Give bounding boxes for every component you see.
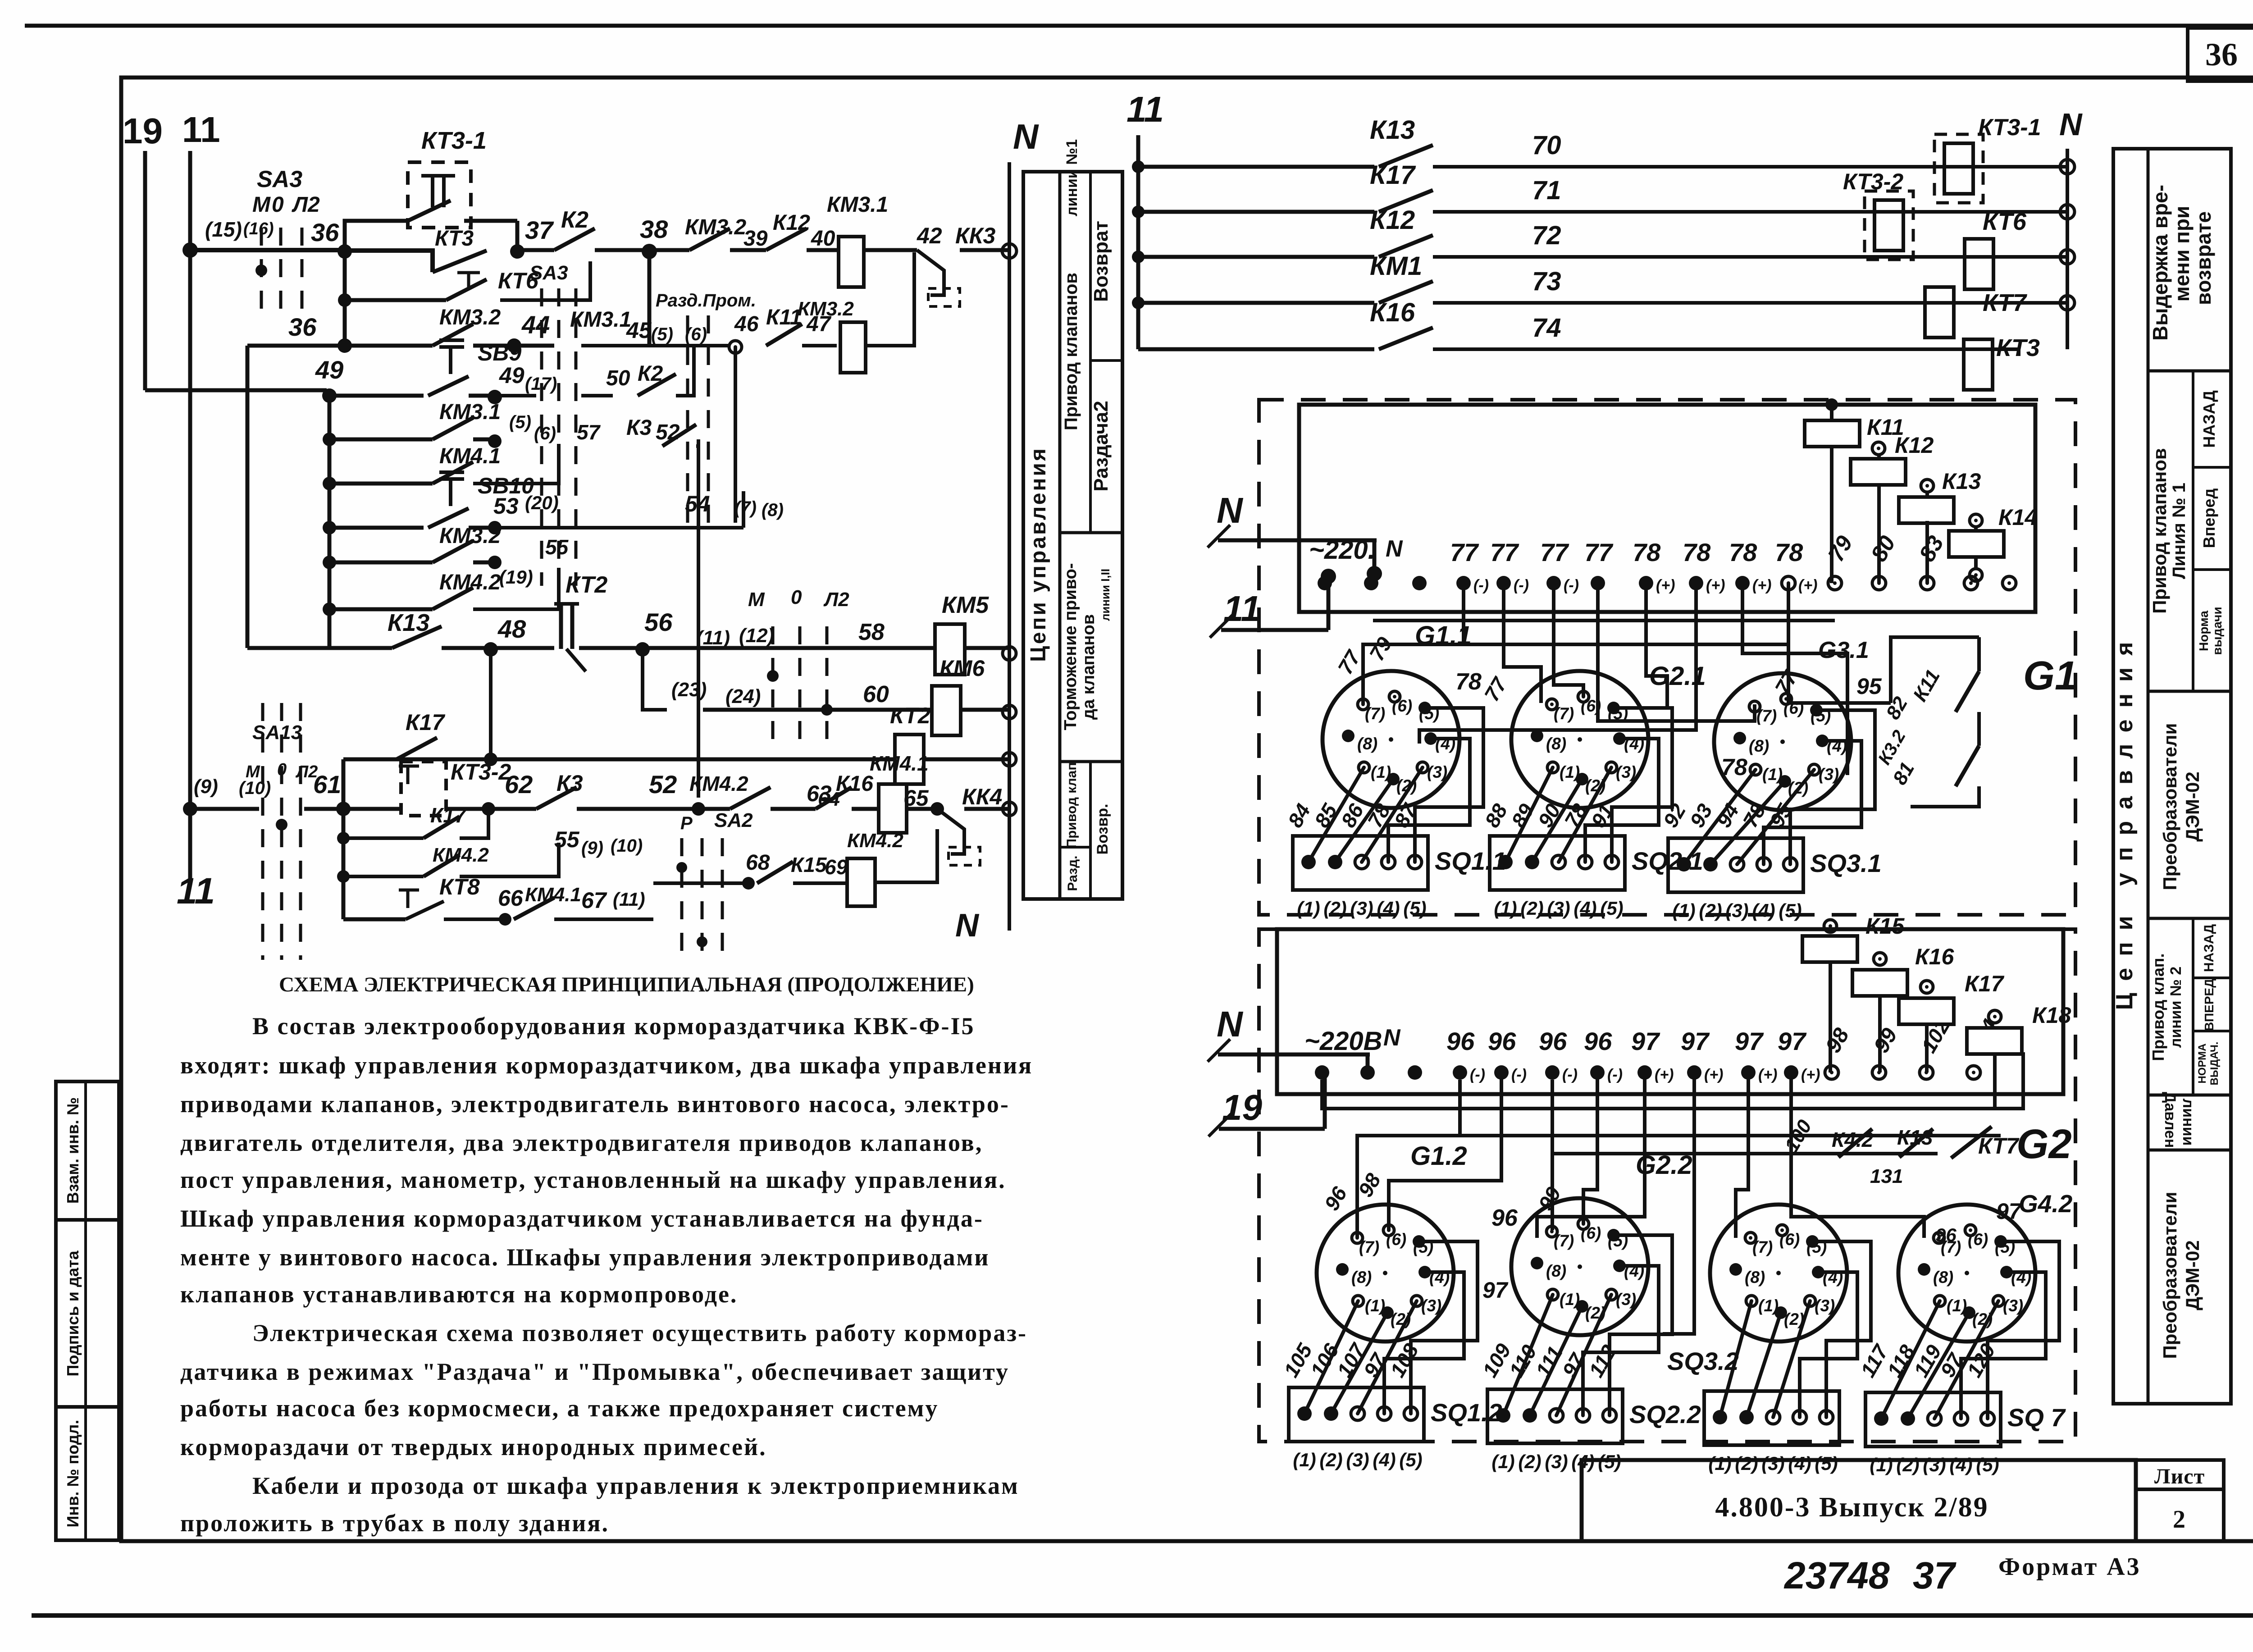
svg-text:0: 0: [272, 193, 284, 217]
svg-text:КТ2: КТ2: [566, 572, 607, 598]
svg-text:Цепи управления: Цепи управления: [2112, 630, 2138, 1010]
svg-text:мени при: мени при: [2170, 206, 2194, 302]
svg-text:(+): (+): [1706, 577, 1725, 594]
svg-text:(8): (8): [1351, 1268, 1372, 1287]
svg-text:11: 11: [177, 871, 215, 912]
svg-text:М: М: [246, 762, 260, 781]
svg-text:линии: линии: [2180, 1099, 2197, 1146]
svg-text:49: 49: [315, 356, 343, 384]
svg-text:(19): (19): [499, 566, 533, 588]
svg-text:(3): (3): [1616, 1290, 1636, 1309]
svg-text:(6): (6): [1779, 1230, 1800, 1249]
svg-text:М: М: [252, 193, 271, 217]
svg-text:К13: К13: [388, 609, 429, 636]
svg-text:(5): (5): [1815, 1453, 1838, 1474]
svg-text:Инв. № подл.: Инв. № подл.: [64, 1420, 82, 1528]
svg-text:кормораздачи от твердых инород: кормораздачи от твердых инородных примес…: [180, 1433, 767, 1460]
svg-text:Разд.Пром.: Разд.Пром.: [656, 291, 756, 310]
svg-text:Вперед: Вперед: [2200, 488, 2218, 548]
svg-text:(4): (4): [1752, 900, 1775, 921]
svg-text:SA3: SA3: [257, 166, 302, 192]
svg-text:(-): (-): [1473, 577, 1489, 594]
svg-text:КТ8: КТ8: [439, 874, 480, 899]
svg-text:(+): (+): [1704, 1066, 1724, 1083]
svg-text:66: 66: [498, 885, 524, 911]
svg-text:SQ 7: SQ 7: [2007, 1403, 2066, 1432]
svg-text:N: N: [1217, 490, 1244, 530]
svg-text:78: 78: [1721, 754, 1747, 780]
svg-text:77: 77: [1450, 538, 1479, 566]
svg-text:КТ3-2: КТ3-2: [451, 759, 511, 785]
svg-text:44: 44: [521, 310, 550, 339]
svg-text:КМ4.2: КМ4.2: [847, 830, 903, 852]
svg-text:работы насоса без кормосмеси,: работы насоса без кормосмеси, а также пр…: [180, 1395, 939, 1422]
svg-text:72: 72: [1532, 221, 1561, 250]
svg-text:(1): (1): [1708, 1453, 1731, 1474]
svg-text:КМ4.1: КМ4.1: [870, 752, 929, 775]
svg-text:НАЗАД: НАЗАД: [2200, 390, 2218, 448]
svg-text:возврате: возврате: [2192, 211, 2215, 305]
svg-text:(1): (1): [1762, 765, 1783, 784]
svg-text:(7): (7): [1752, 1238, 1773, 1256]
svg-text:(3): (3): [1346, 1449, 1369, 1470]
svg-text:N: N: [1217, 1004, 1244, 1044]
svg-text:(7): (7): [734, 498, 757, 518]
svg-text:СХЕМА ЭЛЕКТРИЧЕСКАЯ ПРИНЦИПИАЛ: СХЕМА ЭЛЕКТРИЧЕСКАЯ ПРИНЦИПИАЛЬНАЯ (ПРОД…: [279, 973, 974, 996]
svg-text:SQ3.2: SQ3.2: [1667, 1347, 1739, 1375]
svg-text:(6): (6): [534, 424, 556, 443]
svg-text:19: 19: [1222, 1087, 1262, 1127]
svg-text:Цепи управления: Цепи управления: [1026, 447, 1050, 662]
svg-text:входят: шкаф управления кормо: входят: шкаф управления кормораздатчиком…: [180, 1052, 1033, 1079]
svg-text:К17: К17: [1965, 971, 2005, 996]
svg-text:96: 96: [1446, 1027, 1475, 1055]
svg-text:(6): (6): [1392, 697, 1412, 715]
svg-text:SB9: SB9: [478, 340, 521, 365]
svg-text:(7): (7): [1554, 704, 1574, 723]
svg-text:Шкаф управления кормораздатчик: Шкаф управления кормораздатчиком устанав…: [180, 1205, 984, 1232]
svg-text:Привод клапанов: Привод клапанов: [2149, 448, 2170, 614]
svg-text:(4): (4): [1949, 1454, 1972, 1475]
svg-text:(3): (3): [1350, 898, 1373, 919]
svg-text:Кабели и прозода от шкафа упра: Кабели и прозода от шкафа управления к э…: [252, 1472, 1019, 1499]
svg-text:ВПЕРЕД: ВПЕРЕД: [2202, 979, 2216, 1031]
svg-text:(3): (3): [1545, 1451, 1568, 1472]
svg-text:52: 52: [649, 770, 677, 799]
svg-text:КТ3-1: КТ3-1: [1978, 114, 2041, 141]
svg-text:96: 96: [1584, 1027, 1612, 1055]
svg-text:36: 36: [288, 313, 317, 341]
svg-text:(2): (2): [1735, 1453, 1758, 1474]
svg-text:97: 97: [1482, 1278, 1509, 1303]
svg-text:19: 19: [123, 111, 163, 151]
svg-text:(1): (1): [1494, 898, 1517, 919]
svg-text:К16: К16: [1370, 298, 1415, 327]
svg-text:(1): (1): [1560, 763, 1580, 781]
svg-text:выдачи: выдачи: [2210, 607, 2224, 655]
svg-text:55: 55: [554, 827, 580, 852]
svg-text:Линия № 1: Линия № 1: [2169, 483, 2189, 579]
svg-text:97: 97: [1778, 1027, 1807, 1055]
svg-text:40: 40: [811, 227, 835, 251]
svg-text:Привод клапанов: Привод клапанов: [1061, 273, 1081, 430]
svg-text:ДЭМ-02: ДЭМ-02: [2182, 1240, 2203, 1310]
svg-text:N: N: [2059, 107, 2083, 142]
svg-text:(5): (5): [1779, 900, 1801, 921]
svg-text:54: 54: [685, 491, 710, 516]
svg-text:КТ3: КТ3: [1996, 334, 2040, 361]
svg-text:78: 78: [1455, 669, 1482, 695]
svg-text:Раздача2: Раздача2: [1090, 401, 1112, 491]
svg-text:Возврат: Возврат: [1090, 221, 1112, 302]
svg-text:линии №1: линии №1: [1063, 139, 1081, 216]
svg-text:(3): (3): [2003, 1296, 2023, 1315]
svg-text:SQ1.2: SQ1.2: [1431, 1398, 1502, 1427]
svg-text:(4): (4): [1571, 1451, 1594, 1472]
svg-text:53: 53: [493, 493, 519, 519]
svg-text:КТ3-2: КТ3-2: [1843, 169, 1903, 194]
svg-text:КМ3.2: КМ3.2: [439, 524, 501, 548]
svg-text:датчика в режимах "Раздача" и: датчика в режимах "Раздача" и "Промывка"…: [180, 1358, 1009, 1385]
svg-text:N: N: [955, 908, 980, 944]
svg-text:(1): (1): [1297, 898, 1320, 919]
svg-text:КМ5: КМ5: [942, 592, 989, 618]
svg-text:(5): (5): [1598, 1451, 1621, 1472]
svg-text:SA2: SA2: [714, 809, 753, 831]
svg-text:(2): (2): [1896, 1454, 1919, 1475]
svg-text:(-): (-): [1470, 1066, 1485, 1083]
svg-text:(5): (5): [651, 324, 673, 344]
svg-text:(8): (8): [762, 500, 784, 520]
svg-text:(-): (-): [1511, 1066, 1527, 1083]
svg-text:К15: К15: [1865, 913, 1905, 939]
svg-text:131: 131: [1870, 1165, 1903, 1187]
svg-text:Лист: Лист: [2154, 1465, 2205, 1488]
svg-text:К18: К18: [2032, 1003, 2071, 1028]
svg-text:ДЭМ-02: ДЭМ-02: [2182, 771, 2203, 842]
svg-text:НОРМА: НОРМА: [2196, 1043, 2208, 1083]
svg-text:К16: К16: [1915, 944, 1955, 969]
svg-text:КТ3: КТ3: [435, 227, 474, 251]
svg-text:ВЫДАЧ.: ВЫДАЧ.: [2208, 1042, 2221, 1086]
svg-text:(12): (12): [739, 625, 774, 647]
svg-text:Торможение приво-: Торможение приво-: [1061, 563, 1080, 730]
svg-text:58: 58: [858, 619, 885, 645]
svg-text:пост управления, манометр, уст: пост управления, манометр, установленный…: [180, 1166, 1006, 1193]
svg-text:68: 68: [746, 851, 770, 875]
svg-text:КМ3.1: КМ3.1: [827, 193, 888, 217]
svg-text:(3): (3): [1815, 1296, 1835, 1315]
svg-text:11: 11: [1223, 589, 1261, 629]
svg-text:(16): (16): [243, 219, 274, 238]
svg-text:64: 64: [818, 788, 840, 810]
svg-text:67: 67: [581, 888, 607, 913]
svg-text:Л2: Л2: [823, 589, 849, 611]
svg-text:КК4: КК4: [962, 784, 1002, 809]
svg-text:(9): (9): [581, 838, 603, 858]
svg-text:КТ3-1: КТ3-1: [421, 127, 487, 154]
svg-text:приводами клапанов, электродви: приводами клапанов, электродвигатель вин…: [180, 1091, 1010, 1118]
svg-text:(1): (1): [1947, 1296, 1967, 1315]
svg-text:(4): (4): [1377, 898, 1400, 919]
svg-text:38: 38: [640, 215, 668, 243]
svg-text:G1: G1: [2023, 653, 2077, 698]
svg-text:4.800-3 Выпуск 2/89: 4.800-3 Выпуск 2/89: [1715, 1492, 1988, 1523]
svg-text:(4): (4): [1373, 1449, 1396, 1470]
svg-text:(3): (3): [1547, 898, 1570, 919]
svg-text:КМ4.1: КМ4.1: [439, 444, 501, 468]
svg-text:(6): (6): [1968, 1230, 1988, 1249]
svg-text:(5): (5): [1399, 1449, 1422, 1470]
svg-text:(2): (2): [1323, 898, 1346, 919]
svg-text:К3: К3: [626, 416, 652, 440]
svg-text:(2): (2): [1319, 1449, 1342, 1470]
svg-text:менте у винтового насоса. Шкаф: менте у винтового насоса. Шкафы управлен…: [180, 1244, 990, 1271]
svg-text:Взам. инв. №: Взам. инв. №: [64, 1097, 82, 1204]
svg-text:N: N: [1383, 1025, 1401, 1051]
svg-text:К16: К16: [836, 772, 873, 796]
svg-text:КМ6: КМ6: [940, 656, 985, 681]
svg-text:К12: К12: [1370, 205, 1415, 235]
svg-text:56: 56: [644, 608, 673, 636]
svg-text:(9): (9): [194, 776, 218, 798]
svg-text:(1): (1): [1293, 1449, 1316, 1470]
svg-text:К12: К12: [773, 211, 810, 235]
svg-text:48: 48: [497, 615, 526, 643]
svg-text:SQ1.1: SQ1.1: [1435, 847, 1506, 875]
svg-text:2: 2: [2173, 1506, 2186, 1533]
svg-text:Л2: Л2: [292, 193, 320, 217]
svg-text:(+): (+): [1655, 1066, 1674, 1083]
svg-text:78: 78: [1729, 538, 1757, 566]
svg-text:(8): (8): [1546, 735, 1566, 753]
svg-text:(3): (3): [1616, 763, 1636, 781]
svg-text:(1): (1): [1672, 900, 1695, 921]
svg-text:К15: К15: [791, 853, 827, 876]
svg-text:К12: К12: [1895, 433, 1934, 458]
svg-text:(-): (-): [1562, 1066, 1578, 1083]
svg-text:97: 97: [1735, 1027, 1764, 1055]
svg-text:SQ3.1: SQ3.1: [1810, 849, 1882, 877]
svg-text:(5): (5): [1600, 898, 1623, 919]
svg-text:57: 57: [577, 420, 601, 444]
svg-text:КК3: КК3: [955, 223, 995, 248]
svg-text:КТ7: КТ7: [1978, 1133, 2020, 1159]
svg-text:КМ1: КМ1: [1370, 251, 1422, 281]
svg-text:~220В: ~220В: [1304, 1027, 1382, 1056]
svg-text:Преобразователи: Преобразователи: [2159, 723, 2180, 890]
svg-text:Норма: Норма: [2197, 611, 2211, 651]
svg-text:69: 69: [825, 855, 848, 879]
svg-text:(7): (7): [1365, 704, 1385, 723]
svg-text:37: 37: [525, 216, 554, 244]
svg-text:SA3: SA3: [529, 262, 568, 284]
svg-text:КМ4.2: КМ4.2: [689, 772, 748, 795]
svg-text:95: 95: [1856, 674, 1882, 699]
svg-text:(4): (4): [1573, 898, 1596, 919]
svg-text:(7): (7): [1554, 1232, 1574, 1250]
svg-text:G2: G2: [2016, 1121, 2072, 1167]
svg-text:К14: К14: [1998, 505, 2037, 530]
svg-text:да клапанов: да клапанов: [1079, 614, 1098, 720]
svg-text:М: М: [748, 589, 765, 611]
svg-text:К17: К17: [1370, 160, 1416, 190]
svg-text:39: 39: [743, 227, 768, 251]
svg-text:(2): (2): [1699, 900, 1722, 921]
svg-text:(1): (1): [1491, 1451, 1514, 1472]
svg-text:(+): (+): [1758, 1066, 1778, 1083]
svg-text:КМ4.1: КМ4.1: [525, 884, 581, 906]
svg-text:(8): (8): [1745, 1268, 1765, 1287]
svg-text:(+): (+): [1752, 577, 1772, 594]
svg-text:55: 55: [545, 535, 569, 559]
svg-text:(1): (1): [1758, 1296, 1779, 1315]
svg-text:Разд.: Разд.: [1065, 856, 1080, 891]
svg-text:(3): (3): [1427, 763, 1447, 781]
svg-text:97: 97: [1681, 1027, 1710, 1055]
svg-text:проложить в трубах в полу здан: проложить в трубах в полу здания.: [180, 1510, 609, 1537]
svg-text:0: 0: [791, 586, 802, 608]
svg-text:77: 77: [1540, 538, 1569, 566]
svg-text:G3.1: G3.1: [1818, 637, 1869, 663]
svg-text:36: 36: [311, 218, 339, 246]
svg-text:(3): (3): [1421, 1296, 1441, 1315]
svg-text:КМ3.2: КМ3.2: [798, 298, 854, 320]
svg-text:(5): (5): [1403, 898, 1426, 919]
svg-text:73: 73: [1532, 267, 1561, 296]
svg-text:КТ6: КТ6: [1983, 208, 2027, 235]
svg-text:(5): (5): [509, 412, 531, 432]
svg-text:SА13: SА13: [252, 721, 302, 744]
svg-text:50: 50: [606, 366, 630, 390]
svg-text:В состав электрооборудования к: В состав электрооборудования кормораздат…: [252, 1013, 975, 1040]
svg-text:78: 78: [1775, 538, 1803, 566]
svg-text:96: 96: [1488, 1027, 1516, 1055]
svg-text:N: N: [1013, 117, 1039, 156]
svg-text:(7): (7): [1359, 1238, 1379, 1256]
svg-text:КМ4.2: КМ4.2: [433, 844, 489, 866]
svg-text:(20): (20): [525, 492, 559, 513]
svg-text:(3): (3): [1725, 900, 1748, 921]
svg-text:(8): (8): [1933, 1268, 1953, 1287]
svg-text:(11): (11): [696, 627, 730, 649]
svg-text:37: 37: [1913, 1554, 1957, 1597]
svg-text:(3): (3): [1761, 1453, 1784, 1474]
svg-text:97: 97: [1996, 1199, 2022, 1224]
svg-text:60: 60: [863, 681, 889, 707]
svg-text:К17: К17: [430, 803, 467, 827]
svg-text:96: 96: [1539, 1027, 1567, 1055]
svg-text:(5): (5): [1976, 1454, 1999, 1475]
svg-text:78: 78: [1683, 538, 1711, 566]
svg-text:(8): (8): [1546, 1262, 1566, 1280]
svg-text:(-): (-): [1607, 1066, 1623, 1083]
svg-text:61: 61: [313, 770, 341, 799]
svg-text:71: 71: [1532, 176, 1561, 205]
svg-text:11: 11: [1126, 89, 1164, 129]
svg-text:(-): (-): [1564, 577, 1579, 594]
svg-text:КМ3.2: КМ3.2: [685, 215, 747, 239]
svg-text:65: 65: [903, 785, 929, 811]
svg-text:НАЗАД: НАЗАД: [2202, 924, 2217, 972]
svg-text:(2): (2): [1518, 1451, 1541, 1472]
svg-text:(10): (10): [611, 836, 643, 856]
svg-text:(+): (+): [1801, 1066, 1820, 1083]
svg-text:клапанов устанавливаются на ко: клапанов устанавливаются на кормопроводе…: [180, 1281, 738, 1308]
svg-text:(6): (6): [1581, 1224, 1601, 1242]
svg-text:(24): (24): [725, 685, 761, 707]
svg-text:Возвр.: Возвр.: [1094, 804, 1111, 855]
svg-text:Привод клап.: Привод клап.: [2149, 953, 2167, 1061]
svg-text:46: 46: [734, 312, 759, 336]
svg-text:Привод клап: Привод клап: [1064, 762, 1079, 849]
svg-text:(8): (8): [1749, 737, 1769, 755]
svg-text:К13: К13: [1942, 469, 1981, 494]
svg-text:(+): (+): [1798, 577, 1818, 594]
svg-text:(3): (3): [1819, 765, 1839, 784]
svg-text:(11): (11): [613, 889, 645, 910]
svg-text:49: 49: [499, 363, 524, 388]
svg-text:КМ4.2: КМ4.2: [439, 570, 501, 594]
svg-text:N: N: [1386, 536, 1403, 562]
svg-text:(17): (17): [525, 374, 557, 394]
svg-text:Выдержка вре-: Выдержка вре-: [2148, 185, 2172, 341]
svg-text:0: 0: [277, 760, 287, 779]
svg-text:(8): (8): [1357, 735, 1377, 753]
svg-text:КТ2: КТ2: [890, 703, 930, 728]
svg-text:двигатель отделителя, два элек: двигатель отделителя, два электродвигате…: [180, 1129, 983, 1156]
svg-text:70: 70: [1532, 131, 1561, 160]
svg-text:36: 36: [2205, 37, 2238, 73]
svg-text:(6): (6): [1386, 1230, 1406, 1249]
svg-text:(15): (15): [205, 218, 242, 241]
svg-text:96: 96: [1935, 1224, 1957, 1246]
svg-text:КМ3.1: КМ3.1: [570, 308, 631, 332]
svg-text:(1): (1): [1371, 763, 1391, 781]
svg-text:96: 96: [1491, 1205, 1518, 1231]
svg-text:К17: К17: [406, 710, 446, 735]
svg-text:КТ7: КТ7: [1983, 289, 2028, 316]
svg-text:97: 97: [1631, 1027, 1660, 1055]
svg-text:(23): (23): [671, 679, 707, 701]
svg-text:11: 11: [182, 110, 220, 150]
svg-text:КМ3.2: КМ3.2: [439, 306, 501, 329]
svg-text:G1.2: G1.2: [1410, 1141, 1467, 1171]
svg-text:(1): (1): [1870, 1454, 1893, 1475]
svg-text:Давлен.: Давлен.: [2162, 1092, 2179, 1152]
svg-text:77: 77: [1584, 538, 1614, 566]
svg-text:линии № 2: линии № 2: [2167, 967, 2185, 1048]
svg-text:(1): (1): [1365, 1296, 1385, 1315]
svg-text:Подпись и дата: Подпись и дата: [64, 1250, 82, 1377]
svg-text:78: 78: [1633, 538, 1661, 566]
svg-text:23748: 23748: [1783, 1554, 1890, 1597]
svg-text:(3): (3): [1923, 1454, 1946, 1475]
svg-text:G4.2: G4.2: [2019, 1190, 2073, 1218]
svg-text:К13: К13: [1370, 115, 1415, 145]
svg-text:(2): (2): [1520, 898, 1543, 919]
svg-text:Р: Р: [680, 813, 693, 833]
svg-text:КМ3.1: КМ3.1: [439, 400, 501, 424]
svg-text:SQ2.2: SQ2.2: [1629, 1400, 1701, 1428]
svg-text:Формат А3: Формат А3: [1998, 1553, 2141, 1581]
svg-text:(+): (+): [1656, 577, 1675, 594]
svg-text:74: 74: [1532, 313, 1561, 342]
svg-text:К3: К3: [556, 771, 583, 796]
svg-text:(1): (1): [1560, 1290, 1580, 1309]
svg-text:линии I,II: линии I,II: [1099, 569, 1112, 621]
svg-text:(-): (-): [1514, 577, 1529, 594]
